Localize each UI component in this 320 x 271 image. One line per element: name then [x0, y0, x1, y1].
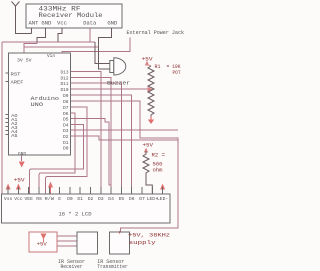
arrow LCD Vcc: [16, 184, 21, 190]
svg-text:D12: D12: [61, 75, 69, 81]
R2 +5V arrow: [144, 148, 148, 153]
svg-text:RST: RST: [11, 71, 21, 77]
antenna: [12, 2, 32, 34]
wire D7 to LCD R/W: [46, 107, 88, 194]
pin GND2 wire: [99, 28, 112, 47]
svg-text:Vss: Vss: [4, 196, 13, 202]
pin AREF: [6, 80, 24, 86]
buzzer BZ1: [107, 58, 130, 87]
svg-text:RS: RS: [36, 196, 42, 202]
Arduino ground arrow: [19, 162, 25, 168]
svg-text:+5V, 38KHz: +5V, 38KHz: [128, 233, 170, 239]
wire D6 to LCD RS: [39, 113, 75, 194]
wire D2 step to right rail: [71, 136, 178, 140]
svg-text:POT: POT: [173, 70, 182, 76]
svg-text:D5: D5: [119, 196, 125, 202]
svg-text:D0: D0: [67, 196, 73, 202]
pin ANT wire: [31, 28, 33, 34]
Arduino UNO box: [9, 53, 71, 157]
LCD module: [2, 194, 171, 223]
R1 ground arrow: [148, 117, 154, 125]
IR sensor transmitter box: [97, 232, 129, 270]
wire D5 step to LCD D4: [71, 119, 111, 185]
svg-text:16 * 2 LCD: 16 * 2 LCD: [59, 212, 92, 218]
svg-text:Receiver Module: Receiver Module: [39, 12, 103, 19]
svg-text:Receiver: Receiver: [61, 264, 83, 270]
svg-text:D11: D11: [61, 81, 69, 87]
wire D3 row to right rail: [71, 129, 178, 131]
svg-text:+: +: [118, 230, 122, 237]
wire D9 to LCD D6: [71, 95, 132, 194]
arrow LCD LED-: [160, 184, 165, 190]
svg-text:Vcc: Vcc: [57, 20, 67, 26]
bus wire W3: [24, 46, 99, 48]
pin RST: [6, 71, 21, 77]
bus wire W1: [2, 41, 95, 43]
wire D13 to LCD D3: [71, 72, 101, 195]
pin A2: [6, 121, 19, 126]
buzzer vertical feed 1: [95, 42, 110, 64]
resistor R1 pot: [148, 66, 154, 117]
svg-text:+5V: +5V: [14, 178, 26, 184]
svg-text:D3: D3: [63, 128, 69, 134]
svg-text:LED-: LED-: [157, 196, 168, 202]
pin A0: [6, 113, 19, 118]
LCD pin stubs: [8, 187, 163, 194]
digital pin labels D13-D0: [61, 70, 69, 152]
IR sensor receiver box: [58, 232, 98, 270]
bus wire W2 and 5V pin drop: [24, 43, 37, 53]
arrow LCD RW: [48, 182, 53, 188]
svg-text:A5: A5: [11, 133, 18, 138]
pin A5: [6, 133, 19, 138]
wire D11 to LCD D5: [71, 83, 122, 194]
pin Vcc wire: [58, 28, 62, 42]
svg-text:GND: GND: [41, 20, 51, 26]
svg-text:D3: D3: [98, 196, 104, 202]
svg-text:D2: D2: [63, 134, 69, 140]
+5V supply box: [29, 232, 57, 252]
svg-text:GND: GND: [107, 20, 117, 26]
R1 +5V arrow: [145, 61, 149, 66]
Arduino GND stub: [21, 156, 23, 162]
pin A4: [6, 129, 19, 134]
svg-text:+5V: +5V: [37, 241, 48, 247]
pin GND wire: [37, 28, 46, 43]
pin A1: [6, 117, 19, 122]
pin A3: [6, 125, 19, 130]
wire D4 to LCD VEE: [29, 124, 83, 194]
wire D10 to pot wiper: [71, 88, 148, 90]
svg-text:ohm: ohm: [153, 168, 163, 174]
pin Data wire: [89, 28, 91, 42]
svg-text:R/W: R/W: [45, 196, 54, 202]
svg-text:D10: D10: [61, 87, 69, 93]
svg-text:D9: D9: [63, 93, 69, 99]
svg-text:D4: D4: [63, 122, 69, 128]
IR receiver supply wire 2: [57, 240, 77, 242]
svg-text:R2 =: R2 =: [152, 153, 166, 159]
svg-text:D8: D8: [63, 99, 69, 105]
svg-text:Transmitter: Transmitter: [97, 264, 128, 270]
svg-text:AREF: AREF: [11, 80, 24, 86]
svg-text:Vin: Vin: [47, 53, 55, 59]
svg-text:Data: Data: [83, 20, 96, 26]
svg-text:supply: supply: [129, 240, 157, 246]
svg-text:+5V: +5V: [143, 143, 154, 149]
svg-text:D6: D6: [129, 196, 135, 202]
svg-text:E: E: [58, 196, 61, 202]
Vin stub: [61, 51, 63, 53]
svg-text:D7: D7: [139, 196, 145, 202]
arrow LCD Vss: [6, 184, 11, 190]
left rail: [1, 42, 3, 194]
pot wiper arrowhead: [148, 87, 153, 92]
svg-text:+5V: +5V: [142, 56, 154, 62]
svg-text:VEE: VEE: [25, 196, 34, 202]
wire D8 supply run to IR transmitter: [71, 101, 178, 232]
IR receiver supply wire 3: [57, 245, 77, 247]
svg-text:D13: D13: [61, 70, 69, 76]
RF receiver module U1: [26, 4, 122, 28]
svg-text:External Power Jack: External Power Jack: [127, 30, 185, 36]
svg-text:R1: R1: [155, 64, 161, 70]
svg-text:D1: D1: [77, 196, 83, 202]
svg-text:D7: D7: [63, 105, 69, 111]
wire D12 to LCD D4: [71, 77, 111, 194]
svg-text:Buzzer: Buzzer: [107, 80, 130, 86]
external power jack wire: [62, 38, 130, 54]
buzzer vertical feed 2: [99, 47, 110, 69]
IR receiver supply wire 1: [57, 235, 77, 237]
svg-text:UNO: UNO: [31, 101, 44, 108]
svg-text:D1: D1: [63, 140, 69, 146]
svg-text:D2: D2: [88, 196, 94, 202]
svg-text:D0: D0: [63, 146, 69, 152]
svg-text:D4: D4: [108, 196, 114, 202]
svg-text:D5: D5: [63, 117, 69, 123]
svg-text:Vcc: Vcc: [14, 196, 23, 202]
svg-text:D6: D6: [63, 111, 69, 117]
svg-text:ANT: ANT: [29, 20, 39, 26]
svg-text:3V 5V: 3V 5V: [17, 58, 32, 64]
resistor R2: [143, 151, 152, 194]
